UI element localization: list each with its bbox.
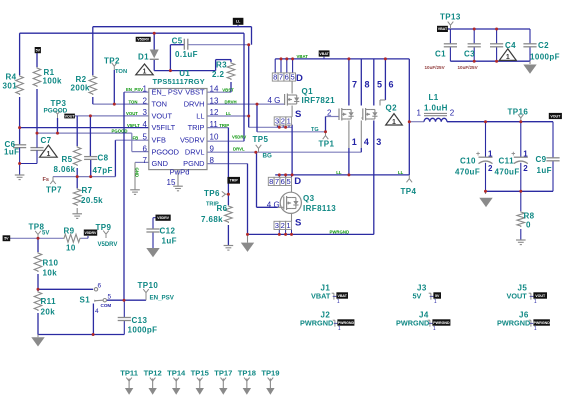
svg-text:TRIP: TRIP [188,123,205,132]
svg-text:1.0uH: 1.0uH [424,103,448,112]
svg-text:2.2: 2.2 [212,70,224,79]
svg-text:5V: 5V [413,292,422,301]
svg-text:C3: C3 [464,49,475,58]
svg-text:470uF: 470uF [455,168,480,177]
svg-text:1: 1 [433,326,436,332]
svg-text:EN_ PSV: EN_ PSV [152,87,183,96]
svg-text:GND: GND [152,159,168,168]
svg-text:R4: R4 [6,73,17,82]
svg-text:4 G: 4 G [268,96,281,105]
svg-text:TP7: TP7 [46,185,62,194]
svg-text:V5DRV: V5DRV [157,216,170,220]
svg-text:8: 8 [365,80,370,90]
svg-text:10uF/25V: 10uF/25V [458,65,479,70]
svg-text:TON: TON [115,69,127,75]
svg-text:PGOOD: PGOOD [44,107,68,114]
svg-text:COM: COM [101,303,112,308]
svg-text:V5FILT: V5FILT [152,123,176,132]
svg-text:10: 10 [66,243,76,252]
svg-text:10k: 10k [43,268,58,277]
svg-text:TRIP: TRIP [219,123,229,128]
svg-text:1uF: 1uF [537,166,552,175]
svg-text:4 G: 4 G [267,200,280,209]
svg-text:VOUT: VOUT [507,292,528,301]
svg-text:VBST: VBST [222,87,234,92]
svg-text:S: S [295,218,301,229]
svg-text:BG: BG [263,153,272,160]
svg-text:7: 7 [275,177,279,186]
svg-text:Q1: Q1 [302,87,314,96]
svg-text:2: 2 [327,109,332,118]
svg-text:2: 2 [143,96,148,105]
svg-text:Fs: Fs [43,177,50,183]
svg-text:3: 3 [376,137,381,147]
svg-text:6: 6 [143,144,148,153]
svg-text:5V: 5V [435,294,440,298]
svg-text:L1: L1 [429,93,439,102]
svg-text:1: 1 [488,149,493,158]
svg-text:9: 9 [210,144,215,153]
svg-text:11: 11 [210,120,219,129]
svg-text:TG: TG [311,127,319,133]
svg-text:4: 4 [364,137,369,147]
svg-text:R3: R3 [216,60,227,69]
svg-text:1uF: 1uF [162,237,177,246]
svg-text:Q2: Q2 [386,103,398,112]
svg-text:VOUT: VOUT [126,111,138,116]
svg-text:TP14: TP14 [167,368,186,377]
svg-text:20k: 20k [41,307,56,316]
svg-text:VOUT: VOUT [65,114,76,118]
svg-text:VOUT: VOUT [152,111,173,120]
svg-text:6: 6 [389,80,394,90]
svg-text:TP9: TP9 [96,223,112,232]
svg-text:2: 2 [281,117,285,126]
svg-text:LL: LL [336,170,342,175]
svg-text:C12: C12 [160,227,176,236]
svg-text:5: 5 [290,73,294,82]
svg-text:3: 3 [275,117,279,126]
svg-text:TP4: TP4 [401,187,417,196]
svg-text:8: 8 [269,177,273,186]
svg-text:7: 7 [352,80,357,90]
svg-text:1: 1 [523,149,528,158]
svg-text:VBAT: VBAT [297,54,309,59]
svg-text:TP6: TP6 [204,189,220,198]
svg-text:4: 4 [143,120,148,129]
svg-text:TON: TON [129,99,138,104]
svg-text:FB: FB [133,135,139,140]
svg-text:TP2: TP2 [104,57,120,66]
svg-text:PWRGND: PWRGND [433,321,450,325]
svg-text:1: 1 [286,221,290,230]
svg-text:47pF: 47pF [93,166,113,175]
svg-text:TP19: TP19 [261,368,279,377]
svg-text:13: 13 [210,96,219,105]
svg-text:C1: C1 [435,49,446,58]
svg-text:6: 6 [285,73,289,82]
svg-text:TP5: TP5 [253,135,269,144]
svg-text:6: 6 [98,283,102,290]
svg-text:5: 5 [377,80,382,90]
svg-text:R5: R5 [62,155,73,164]
svg-text:5: 5 [143,132,148,141]
svg-text:15: 15 [167,178,176,187]
svg-text:PWRGND: PWRGND [300,319,333,328]
svg-text:R7: R7 [82,186,93,195]
svg-text:TRIP: TRIP [206,201,219,207]
svg-text:5V: 5V [4,237,9,241]
svg-text:R11: R11 [41,297,57,306]
svg-text:PWRGND: PWRGND [396,319,429,328]
svg-text:VBAT: VBAT [311,292,331,301]
svg-text:TRIP: TRIP [230,179,239,183]
svg-text:DRVL: DRVL [185,148,205,157]
svg-text:LL: LL [196,111,204,120]
svg-text:8.06k: 8.06k [54,165,76,174]
svg-text:C9: C9 [536,155,547,164]
svg-text:C11: C11 [499,157,515,166]
svg-text:7: 7 [279,73,283,82]
svg-text:2: 2 [488,164,493,173]
svg-text:C4: C4 [505,41,516,50]
svg-text:TP10: TP10 [138,281,159,290]
svg-text:DRVH: DRVH [184,99,205,108]
svg-text:EN_PSV: EN_PSV [126,87,143,92]
svg-text:C5: C5 [172,36,183,45]
svg-text:S: S [295,109,301,120]
svg-text:V5FLT: V5FLT [127,123,140,128]
svg-text:D: D [296,73,303,84]
svg-text:7.68k: 7.68k [201,215,223,224]
svg-text:Q3: Q3 [303,194,315,203]
svg-text:470uF: 470uF [495,168,520,177]
svg-text:10uF/25V: 10uF/25V [425,65,446,70]
svg-text:D: D [294,176,301,187]
svg-text:5V: 5V [42,231,49,237]
svg-text:1: 1 [434,299,437,305]
svg-text:VFB: VFB [152,136,166,145]
svg-text:EN_PSV: EN_PSV [150,295,175,302]
svg-text:TP1: TP1 [319,140,335,149]
svg-text:TP15: TP15 [191,368,210,377]
svg-text:PWRGND: PWRGND [330,229,350,234]
svg-text:IRF8113: IRF8113 [303,204,336,213]
svg-text:2: 2 [523,164,528,173]
svg-text:10: 10 [210,132,219,141]
svg-text:VOUT: VOUT [550,114,561,118]
svg-text:TPS51117RGY: TPS51117RGY [153,77,205,86]
svg-text:12: 12 [210,108,219,117]
svg-text:C10: C10 [460,157,476,166]
svg-text:PWRGND: PWRGND [533,321,550,325]
svg-text:1: 1 [392,119,396,126]
svg-text:C2: C2 [538,41,549,50]
svg-text:TP11: TP11 [120,368,139,377]
svg-text:4: 4 [95,308,99,315]
svg-text:LL: LL [398,170,404,175]
svg-text:1: 1 [417,109,422,118]
svg-text:200k: 200k [71,84,91,93]
svg-text:1: 1 [506,54,510,61]
svg-text:PwPd: PwPd [170,168,190,177]
svg-text:1: 1 [337,299,340,305]
svg-text:V5DRV: V5DRV [137,38,150,42]
svg-text:1: 1 [143,84,148,93]
svg-text:DRVH: DRVH [225,99,237,104]
svg-text:1: 1 [287,117,291,126]
svg-text:20.5k: 20.5k [81,196,103,205]
svg-text:PGOOD: PGOOD [112,128,128,133]
svg-text:V5DRV: V5DRV [180,136,205,145]
svg-text:1: 1 [352,137,357,147]
svg-text:S1: S1 [80,296,91,305]
svg-text:LL: LL [226,111,232,116]
svg-text:VBAT: VBAT [438,27,448,31]
svg-text:PGOOD: PGOOD [152,148,180,157]
svg-text:TP13: TP13 [440,12,461,21]
svg-text:14: 14 [210,84,219,93]
svg-text:GND: GND [135,168,140,178]
svg-text:C7: C7 [41,136,52,145]
svg-text:VBST: VBST [185,87,205,96]
svg-text:8: 8 [210,156,215,165]
svg-text:1: 1 [143,69,147,76]
svg-text:TP18: TP18 [238,368,256,377]
svg-text:R10: R10 [43,258,59,267]
svg-text:+: + [476,151,480,158]
svg-text:TP17: TP17 [214,368,232,377]
svg-text:TP16: TP16 [508,107,529,116]
svg-text:V5DRV: V5DRV [232,135,246,140]
svg-text:5V: 5V [36,48,41,52]
svg-text:3: 3 [143,108,148,117]
svg-text:R8: R8 [524,211,535,220]
svg-text:2: 2 [281,221,285,230]
svg-text:PWRGND: PWRGND [497,319,530,328]
svg-text:2: 2 [450,109,455,118]
svg-text:D1: D1 [138,53,149,62]
svg-text:VOUT: VOUT [535,294,546,298]
svg-text:7: 7 [143,156,148,165]
svg-text:1000pF: 1000pF [530,53,560,62]
svg-text:301: 301 [3,81,18,90]
svg-text:1000pF: 1000pF [128,326,158,335]
svg-text:DRVL: DRVL [233,146,245,151]
svg-text:100k: 100k [43,77,63,86]
svg-text:1: 1 [534,326,537,332]
svg-text:1: 1 [338,326,341,332]
svg-text:0.1uF: 0.1uF [175,50,198,59]
svg-text:6: 6 [281,177,285,186]
svg-text:5: 5 [108,294,112,301]
svg-text:0: 0 [526,220,531,229]
svg-text:R9: R9 [64,227,75,236]
svg-text:V5DRV: V5DRV [98,242,118,248]
svg-text:IRF7821: IRF7821 [302,96,336,105]
svg-text:C13: C13 [132,316,148,325]
svg-text:TON: TON [152,99,167,108]
svg-text:PWRGND: PWRGND [338,321,355,325]
svg-text:3: 3 [275,221,279,230]
svg-text:1: 1 [534,299,537,305]
svg-text:1uF: 1uF [4,148,19,157]
svg-text:TP12: TP12 [144,368,162,377]
svg-text:1: 1 [46,151,50,158]
svg-text:VBAT: VBAT [319,52,329,56]
svg-text:8: 8 [273,73,277,82]
svg-text:VBAT: VBAT [337,294,347,298]
svg-text:5: 5 [286,177,290,186]
svg-text:C8: C8 [98,154,109,163]
